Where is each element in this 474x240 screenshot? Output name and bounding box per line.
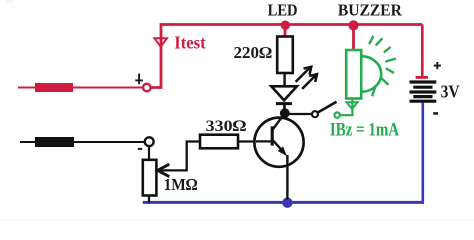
buzzer BZ1 body bbox=[346, 50, 361, 99]
switch S1 lever (open) bbox=[318, 102, 336, 112]
label battery + bbox=[434, 62, 441, 69]
battery BT1 3V bbox=[410, 77, 437, 101]
transistor Q1 collector lead bbox=[272, 113, 285, 130]
LED D1 bbox=[271, 86, 297, 110]
transistor Q1 body bbox=[254, 118, 303, 167]
switch S1 throw contact (green open circle) bbox=[335, 112, 340, 117]
wire base lead bbox=[238, 140, 256, 142]
wire green contact to buzzer bbox=[340, 99, 352, 116]
switch S1 pole (open circle) bbox=[312, 111, 318, 117]
svg-text:220Ω: 220Ω bbox=[234, 43, 273, 62]
resistor R1 220 ohm bbox=[277, 37, 293, 74]
wire battery negative drop (blue) bbox=[421, 103, 424, 203]
node + terminal (red open circle) bbox=[143, 84, 151, 92]
red test probe bbox=[35, 83, 73, 92]
resistor R2 330 ohm bbox=[200, 135, 238, 149]
junction dot LED branch bbox=[281, 21, 290, 30]
wire emitter to negative rail bbox=[286, 155, 288, 200]
LED emission arrows bbox=[297, 67, 318, 88]
node collector junction bbox=[280, 108, 290, 118]
transistor Q1 base bar bbox=[271, 126, 274, 145]
current arrow IBz (green, down) bbox=[347, 102, 358, 109]
svg-text:LED: LED bbox=[268, 0, 298, 19]
label + (positive probe) bbox=[135, 74, 143, 85]
svg-text:BUZZER: BUZZER bbox=[338, 0, 403, 19]
svg-text:330Ω: 330Ω bbox=[206, 118, 247, 135]
wire red probe lead bbox=[18, 87, 143, 89]
node - terminal (black open circle) bbox=[145, 137, 154, 146]
current arrow Itest bbox=[154, 38, 167, 47]
svg-text:IBz = 1mA: IBz = 1mA bbox=[330, 120, 399, 141]
wire potentiometer to negative rail bbox=[148, 196, 150, 204]
potentiometer wiper arrow bbox=[158, 142, 200, 177]
wire LED branch stub bbox=[284, 25, 287, 37]
wire buzzer branch stub bbox=[352, 25, 355, 50]
buzzer BZ1 dome bbox=[361, 56, 381, 92]
wire negative rail bottom (blue) bbox=[143, 201, 424, 204]
svg-text:Itest: Itest bbox=[174, 32, 206, 52]
label - (negative probe) bbox=[138, 148, 142, 150]
wire resistor to LED bbox=[283, 73, 285, 87]
svg-text:3V: 3V bbox=[441, 81, 460, 101]
wire node to potentiometer bbox=[148, 146, 150, 160]
wire black probe lead bbox=[20, 141, 145, 143]
transistor Q1 emitter lead with arrow bbox=[272, 140, 287, 157]
potentiometer RV1 1M ohm body bbox=[143, 160, 157, 196]
transistor Q1 base lead inside bbox=[256, 140, 272, 142]
junction dot buzzer branch bbox=[348, 20, 358, 30]
wire junction to switch bbox=[285, 113, 312, 115]
label battery - bbox=[433, 112, 438, 115]
black test probe bbox=[35, 137, 74, 147]
buzzer sound rays bbox=[369, 36, 396, 96]
svg-text:1MΩ: 1MΩ bbox=[164, 175, 198, 194]
wire battery positive drop bbox=[421, 25, 424, 78]
node emitter junction (blue dot) bbox=[282, 198, 292, 208]
wire positive rail top bbox=[150, 25, 422, 88]
decorative faint artifacts bbox=[6, 0, 13, 4]
